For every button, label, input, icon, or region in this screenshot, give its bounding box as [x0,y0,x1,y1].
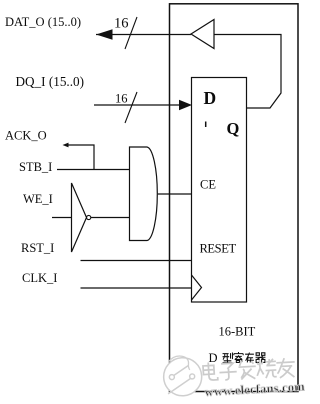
wire ACK_O tap [67,145,94,170]
svg-text:16: 16 [115,92,128,106]
svg-text:D: D [209,351,218,365]
电 [203,362,218,381]
wire inverter output [91,217,130,219]
svg-text:ACK_O: ACK_O [5,129,47,143]
svg-text:RESET: RESET [200,242,237,256]
wire: buffer input feedback from Q [214,35,281,109]
inverter bubble [87,215,91,219]
wire AND output to CE [158,193,192,195]
svg-text:STB_I: STB_I [19,160,52,174]
tri-state buffer U2 [191,20,214,49]
svg-text:DAT_O (15..0): DAT_O (15..0) [5,15,81,29]
svg-text:16-BIT: 16-BIT [219,325,256,339]
watermark group (elecfans), slightly rotated [163,349,306,401]
outer box (16-BIT D register block) [170,4,299,392]
watermark text 电子发烧友 [203,358,296,383]
bus-width slash (DQ_I) [125,92,137,123]
CJK glyph 寄 [234,352,243,362]
register U1 box [192,78,247,303]
wire WE_I [52,217,72,219]
wire CLK_I [81,287,192,289]
svg-text:16: 16 [114,16,129,32]
CJK glyph 器 [256,353,266,363]
svg-text:D: D [204,88,217,108]
CJK glyph 型 [223,353,233,363]
inverter Q4 (WE_I) [72,183,87,252]
wire DAT_O bus (y=35) [96,34,191,36]
友 [276,358,295,378]
子 [219,363,237,380]
arrowhead DQ_I (points right into D) [179,100,192,110]
烧 [256,359,276,379]
svg-text:Q: Q [227,119,240,138]
arrowhead DAT_O (points left) [96,29,113,39]
wire DQ_I bus (y=105) [94,104,181,106]
发 [238,360,256,380]
svg-text:CLK_I: CLK_I [22,271,57,285]
bus-width slash (DAT_O) [125,17,137,49]
svg-text:WE_I: WE_I [23,192,53,206]
svg-text:www.elecfans.com: www.elecfans.com [204,379,305,399]
watermark logo circle [163,355,203,397]
wire STB_I [57,169,130,171]
ACK_O tap arrowhead [63,143,69,148]
svg-text:DQ_I (15..0): DQ_I (15..0) [16,74,85,89]
svg-text:CE: CE [200,178,216,192]
tick mark under D [205,122,207,128]
svg-text:RST_I: RST_I [21,241,54,255]
wire RST_I [81,260,192,262]
clock chevron [192,275,202,300]
CJK glyph 存 [245,353,254,363]
AND gate U3 [130,147,158,241]
